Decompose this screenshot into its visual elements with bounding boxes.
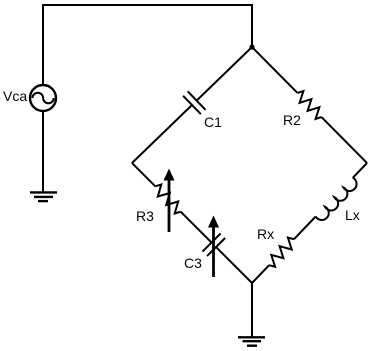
resistor R2 <box>298 91 322 119</box>
node top junction dot <box>249 44 254 49</box>
resistor Rx <box>269 238 294 267</box>
ground (left) <box>30 192 57 201</box>
svg-text:C1: C1 <box>204 114 222 130</box>
svg-text:Lx: Lx <box>345 207 360 223</box>
wire C1 to left node <box>132 105 192 163</box>
wire Rx to bottom node <box>252 265 269 283</box>
svg-text:R3: R3 <box>136 208 154 224</box>
wire R3 to C3 <box>181 212 212 243</box>
svg-text:Vca: Vca <box>3 88 27 104</box>
R3 adjustment arrow <box>164 169 175 233</box>
wire left vertical to source <box>42 4 44 85</box>
svg-text:C3: C3 <box>184 255 202 271</box>
svg-text:R2: R2 <box>283 112 301 128</box>
wire right node to Lx <box>353 163 367 178</box>
wire top horizontal <box>42 4 253 6</box>
wire top node to R2 <box>252 47 298 93</box>
inductor Lx <box>316 178 357 220</box>
capacitor C1 <box>183 91 205 114</box>
wire left node to R3 <box>132 163 155 186</box>
ac source Vca <box>30 85 56 111</box>
C3 adjustment arrow <box>208 216 219 278</box>
wire C3 to bottom node <box>216 247 252 283</box>
wire right vertical to top node <box>251 4 253 47</box>
capacitor C3 variable <box>203 234 226 257</box>
wire source to ground <box>42 111 44 192</box>
wire R2 to right node <box>322 117 368 163</box>
sine symbol inside source <box>33 93 54 104</box>
svg-text:Rx: Rx <box>257 226 274 242</box>
wire Lx to Rx <box>294 217 316 240</box>
ground (bottom) <box>238 337 265 345</box>
wire top node to C1 <box>197 47 252 101</box>
wire bottom node to ground <box>251 283 253 337</box>
resistor R3 variable <box>155 185 180 214</box>
